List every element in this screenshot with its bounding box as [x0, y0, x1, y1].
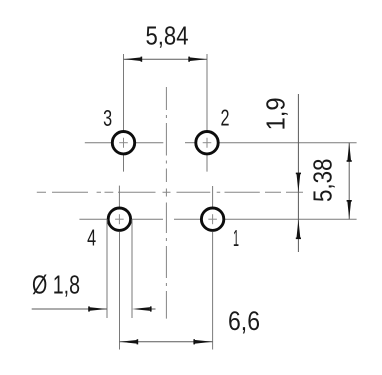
horizontal centerline	[37, 191, 303, 193]
svg-text:5,84: 5,84	[146, 22, 189, 50]
arrow up tip at bottom pin row (1,9)	[297, 219, 301, 238]
svg-text:1: 1	[233, 225, 239, 251]
arrow right 5,84	[189, 57, 208, 61]
leader line diameter 1,8	[32, 308, 107, 310]
leader tail right	[150, 308, 156, 310]
arrow left 5,84	[124, 57, 143, 61]
pin 1	[174, 186, 357, 230]
dimension line 5,38 (vertical)	[348, 143, 350, 220]
svg-text:1,9: 1,9	[263, 97, 291, 130]
arrow down 5,38	[347, 201, 351, 220]
dimension line 6,6	[120, 341, 213, 343]
dimension line 5,84	[124, 58, 208, 60]
arrow down tip at centerline (1,9)	[297, 174, 301, 193]
arrow right-pointing tip at left tangent	[89, 307, 108, 311]
arrow back bars	[141, 57, 143, 62]
svg-text:2: 2	[221, 105, 230, 131]
svg-text:6,6: 6,6	[228, 306, 260, 336]
svg-text:Ø 1,8: Ø 1,8	[32, 272, 80, 300]
wire: tangent extension right of pin4 (diameter 1,8)	[131, 219, 133, 318]
svg-text:4: 4	[87, 225, 96, 251]
arrow up 5,38	[347, 143, 351, 162]
wire: extension pin4 center down (6,6 left)	[119, 232, 121, 350]
wire: tangent extension left of pin4 (diameter 1,8)	[106, 219, 108, 318]
pin 4	[79, 186, 163, 231]
wire: extension pin1 center down (6,6 right)	[212, 232, 214, 350]
wire: extension line pin2 vertical (5,84 right)	[206, 54, 208, 130]
pin 2	[185, 132, 357, 172]
arrow left-pointing tip at right tangent	[132, 307, 151, 311]
svg-text:5,38: 5,38	[310, 159, 338, 203]
arrow left 6,6	[120, 340, 139, 344]
pin 3	[85, 132, 164, 172]
vertical centerline	[165, 87, 167, 319]
arrow right 6,6	[194, 340, 213, 344]
wire: extension line pin3 vertical (5,84 left)	[123, 54, 125, 130]
svg-text:3: 3	[103, 105, 112, 131]
dimension line 1,9 (vertical)	[297, 94, 299, 252]
